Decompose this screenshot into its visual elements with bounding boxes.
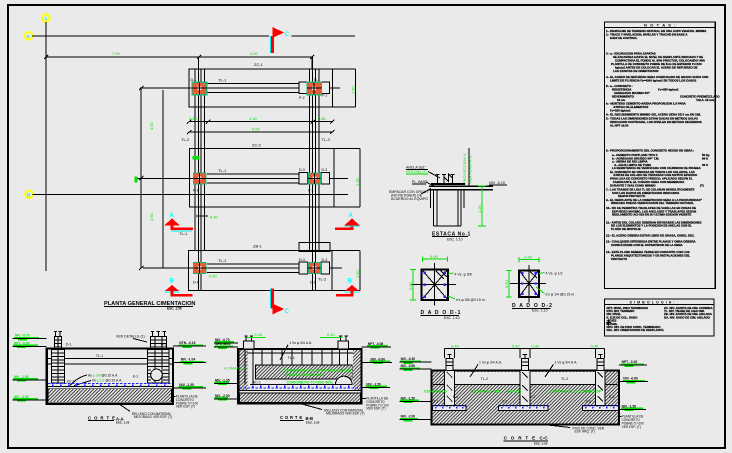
svg-text:TL-1: TL-1 (96, 354, 103, 358)
svg-text:TL-2: TL-2 (481, 377, 488, 381)
left level markers (214, 338, 238, 401)
CORTE C-C GROUP (400, 343, 649, 445)
bottom hatch band (240, 393, 361, 402)
svg-text:1.20: 1.20 (477, 204, 482, 213)
section box A-A (47, 349, 173, 404)
svg-text:VER ESP: VER ESP (584, 388, 602, 393)
svg-text:TL-3: TL-3 (322, 137, 331, 142)
grid bubble B (left lower) (25, 191, 33, 199)
svg-text:P-2: P-2 (299, 96, 305, 100)
CORTE A-A GROUP (13, 331, 207, 425)
right level markers (619, 360, 648, 411)
svg-text:ESC. 1:50: ESC. 1:50 (167, 306, 182, 310)
right pedestal above (338, 336, 349, 385)
svg-text:4.50: 4.50 (149, 212, 154, 221)
svg-text:P-1: P-1 (193, 189, 199, 193)
footing ZB-1 row3 outline (189, 251, 332, 291)
pedestal P-1 row1 (321, 82, 330, 94)
relleno leader label (545, 425, 605, 434)
svg-text:D-1: D-1 (191, 78, 197, 82)
notas box (605, 22, 716, 288)
cross symbol (606, 320, 611, 326)
svg-text:VER ESP. (T): VER ESP. (T) (366, 407, 385, 411)
svg-text:VER ESP. (T): VER ESP. (T) (622, 425, 641, 429)
plantilla label (172, 395, 199, 409)
footing ZC-2 row2 outline (189, 148, 334, 207)
svg-text:C O R T E: C O R T E (88, 415, 116, 420)
section arrow C bottom (270, 288, 289, 315)
svg-text:C O R T E: C O R T E (504, 436, 537, 441)
pedestal rects row3 right column (299, 262, 308, 274)
svg-text:DA. NIV. DADO DE CIM. AISLADO: DA. NIV. DADO DE CIM. AISLADO (664, 315, 711, 319)
slab line (238, 389, 361, 391)
svg-text:P-1: P-1 (308, 189, 314, 193)
svg-text:PROYECTO: PROYECTO (611, 257, 628, 261)
svg-text:0.40: 0.40 (512, 343, 521, 348)
svg-text:ACUERDO AL EQUIPO: ACUERDO AL EQUIPO (391, 197, 428, 201)
svg-text:0.60: 0.60 (209, 274, 218, 279)
svg-text:30 lt: 30 lt (702, 163, 708, 167)
svg-text:Z-2: Z-2 (502, 399, 507, 403)
svg-text:VER ESP. (T): VER ESP. (T) (176, 405, 195, 409)
svg-text:1 Vs φ 3/4 A.A.: 1 Vs φ 3/4 A.A. (554, 360, 577, 364)
rebar dots (52, 385, 166, 387)
base plate lines (431, 183, 465, 185)
svg-text:Z-3: Z-3 (586, 399, 591, 403)
dado column row3 left (193, 263, 206, 285)
left level markers (400, 357, 432, 421)
svg-text:REGLAMENTO ACI-318 EN SU ULTIM: REGLAMENTO ACI-318 EN SU ULTIMA EDICION … (612, 213, 691, 217)
dado D-1 section square (412, 263, 457, 306)
svg-text:ESC. 1:20: ESC. 1:20 (534, 442, 548, 446)
svg-text:e's φ 1/4 @0.15 m.: e's φ 1/4 @0.15 m. (546, 293, 576, 297)
svg-text:CICLOPEO VER: CICLOPEO VER (471, 388, 501, 393)
svg-text:e's φ 3/8 @0.15 m.: e's φ 3/8 @0.15 m. (456, 298, 486, 302)
DADO DETAILS GROUP (408, 254, 575, 320)
top dim lines (445, 348, 605, 358)
svg-text:0.80: 0.80 (189, 116, 198, 121)
svg-text:ESC. 1:10: ESC. 1:10 (444, 316, 460, 320)
left vertical dimension line (140, 88, 142, 268)
svg-text:TL-1: TL-1 (179, 231, 188, 236)
anchor bolts with hooks (436, 174, 455, 184)
svg-text:E-3: E-3 (609, 395, 614, 399)
hatched plantilla (48, 389, 172, 402)
column 2 (520, 354, 530, 406)
pedestal P-2 row1 (299, 82, 308, 94)
inner vertical dim line (162, 90, 164, 268)
svg-text:N O T A S :: N O T A S : (644, 22, 677, 27)
svg-text:S I M B O L O G I A :: S I M B O L O G I A : (630, 301, 676, 305)
svg-text:4.00: 4.00 (250, 51, 259, 56)
svg-text:P-1: P-1 (322, 94, 328, 98)
blue dashed line (48, 382, 172, 384)
column 3 (595, 354, 605, 406)
blue dashed line (240, 387, 362, 389)
green mark above left column row2 (193, 156, 200, 159)
pedestal body (431, 190, 465, 227)
svg-text:NIV. -0.15: NIV. -0.15 (489, 181, 505, 185)
svg-text:D-3: D-3 (322, 168, 328, 172)
dado column row3 right (308, 263, 320, 285)
svg-text:TL-1: TL-1 (288, 356, 295, 360)
svg-text:C O R T E: C O R T E (280, 415, 303, 420)
svg-text:PIEDRA BRAZA 60%: PIEDRA BRAZA 60% (285, 372, 324, 377)
svg-text:CONCRETO: CONCRETO (424, 388, 447, 393)
green vertical note text 1 (456, 185, 477, 187)
blue dots row (252, 386, 350, 388)
svg-text:MEJORADO VER ESP. (T): MEJORADO VER ESP. (T) (134, 415, 172, 419)
svg-text:D-3: D-3 (299, 168, 305, 172)
axis row 1 (140, 87, 340, 89)
top dimension line 7.00 / 4.00 (46, 56, 312, 58)
svg-text:CONSULTARSE CON EL SUPERVISOR: CONSULTARSE CON EL SUPERVISOR DE LA OBRA (611, 243, 684, 247)
svg-text:TL-1: TL-1 (218, 258, 227, 263)
svg-text:ESP. ARQ. (T): ESP. ARQ. (T) (575, 430, 595, 434)
title CORTE B-B (280, 415, 320, 424)
svg-text:12.- EL ACERO DEBERA ESTAR LIB: 12.- EL ACERO DEBERA ESTAR LIBRE DE GRAS… (606, 234, 695, 238)
grid bubble A (left upper) (25, 32, 33, 40)
svg-text:As φ 3/8 @0.15 A.A.: As φ 3/8 @0.15 A.A. (88, 373, 118, 377)
footing ZC-1 row1 outline (189, 69, 332, 107)
right vertical dim row1 (355, 69, 357, 107)
green dims D-2 (506, 257, 539, 297)
white upper strips between columns (445, 372, 520, 384)
leaders 1 Vs (470, 360, 502, 377)
column 1 (445, 354, 455, 406)
svg-text:0.40: 0.40 (254, 332, 263, 337)
svg-text:C: C (285, 31, 290, 38)
stirrup verticals (262, 350, 332, 365)
svg-text:ESP (T): ESP (T) (507, 388, 522, 393)
title DADO D-2 (512, 303, 553, 312)
svg-text:VER ESP. (T): VER ESP. (T) (327, 367, 352, 372)
tie beam TL-1 row2 (207, 173, 308, 175)
svg-text:INDICADA PREVIA VERIFICACION D: INDICADA PREVIA VERIFICACION DEL TERRENO… (611, 201, 694, 205)
green top dims (247, 337, 343, 339)
NOTAS GROUP (605, 22, 721, 288)
svg-text:0.40: 0.40 (525, 255, 534, 260)
right green dimension (477, 186, 486, 226)
right level markers (362, 342, 393, 389)
section arrow A left (165, 213, 194, 231)
svg-text:D-1: D-1 (310, 281, 316, 285)
svg-text:PROYECCION V.: PROYECCION V. (462, 153, 467, 184)
title PLANTA GENERAL CIMENTACION (104, 301, 195, 310)
section arrow C top (270, 27, 289, 53)
svg-text:MEJORADO VER ESP. (T): MEJORADO VER ESP. (T) (326, 412, 364, 416)
svg-text:AL NPT ±0.00: AL NPT ±0.00 (610, 123, 629, 127)
right vertical dim row2 (359, 148, 361, 207)
svg-text:VER DIM. (T): VER DIM. (T) (406, 170, 427, 174)
svg-text:D-1: D-1 (314, 78, 320, 82)
svg-text:5.60: 5.60 (252, 127, 261, 132)
dado column row2 right (308, 173, 321, 193)
axis row 2 (135, 177, 348, 179)
footing pads white (433, 406, 619, 411)
svg-text:D-4: D-4 (322, 258, 328, 262)
svg-text:E-2: E-2 (530, 395, 535, 399)
svg-text:E-1: E-1 (453, 395, 458, 399)
grid line horizontal A (32, 35, 269, 37)
svg-text:D-3: D-3 (161, 343, 167, 347)
grid bubble 1 (top) (42, 14, 50, 22)
right vertical dim row3 (359, 251, 361, 291)
svg-text:4 Vs. φ 1/2: 4 Vs. φ 1/2 (546, 272, 563, 276)
relleno leader label (120, 405, 172, 420)
grid line vertical 1 (45, 22, 47, 271)
svg-text:f'c=250 kg/cm2: f'c=250 kg/cm2 (658, 87, 679, 91)
svg-text:NCL. NIV. CIMENTACION DE DESP: NCL. NIV. CIMENTACION DE DESPLANTE (607, 328, 664, 332)
svg-text:0.80: 0.80 (318, 116, 327, 121)
svg-text:1: 1 (45, 16, 48, 21)
svg-text:VER PLANTA N.: VER PLANTA N. (468, 155, 473, 185)
svg-text:ZC-1: ZC-1 (254, 62, 264, 67)
grid line horizontal B (33, 193, 348, 195)
hatched right wall (353, 350, 361, 390)
svg-text:TL-2: TL-2 (561, 377, 568, 381)
svg-text:VER DETALLE (1): VER DETALLE (1) (116, 335, 145, 339)
dado D-1 column row1 right (307, 78, 322, 95)
leader label PL BASE (412, 180, 434, 186)
svg-text:0.40: 0.40 (591, 343, 600, 348)
title CORTE C-C (504, 436, 549, 446)
CORTE B-B GROUP (214, 332, 392, 425)
title DADO D-1 (421, 310, 462, 320)
plantilla label right (619, 415, 644, 429)
svg-text:0.60: 0.60 (408, 281, 413, 290)
svg-text:T.M.A. 19 mm: T.M.A. 19 mm (696, 98, 715, 102)
svg-text:4.40: 4.40 (249, 116, 258, 121)
leaders D-2 (539, 272, 563, 276)
extension line from notes (468, 148, 470, 186)
SIMBOLOGIA GROUP (604, 299, 714, 336)
left level markers (13, 334, 47, 402)
plantilla label right (362, 397, 389, 411)
svg-text:1 Vs φ 3/4 A.A.: 1 Vs φ 3/4 A.A. (289, 341, 312, 345)
green tick left of row2 (135, 177, 138, 183)
green dims D-1 (410, 257, 447, 300)
svg-text:TL-1: TL-1 (218, 168, 227, 173)
dado D-1 column row1 left (191, 78, 207, 95)
svg-text:2.40: 2.40 (355, 177, 360, 186)
leaders D-1 (448, 273, 472, 277)
title CORTE A-A (88, 415, 130, 424)
rect above row3 right column (299, 243, 330, 252)
svg-text:PLANO DE MONTAJE: PLANO DE MONTAJE (611, 227, 641, 231)
title ESTACA No.1 (432, 232, 471, 242)
svg-text:0.40: 0.40 (327, 332, 336, 337)
column axis verticals row1-row3 (194, 69, 196, 251)
svg-text:ESC. 1:10: ESC. 1:10 (532, 309, 548, 313)
svg-text:D-1: D-1 (193, 281, 199, 285)
relleno leader label (300, 404, 364, 416)
svg-text:1.50: 1.50 (351, 85, 356, 94)
section arrow B right (336, 279, 360, 297)
svg-text:ZC-2: ZC-2 (252, 143, 262, 148)
svg-text:TL-1: TL-1 (218, 78, 227, 83)
svg-text:PL. BASE: PL. BASE (412, 180, 428, 184)
svg-text:0.50: 0.50 (430, 254, 439, 259)
tie beam TL-1 row3 (207, 263, 308, 265)
svg-text:A: A (349, 213, 354, 219)
section arrow B left (165, 279, 193, 297)
svg-text:A: A (170, 213, 175, 219)
svg-text:LIMITE DE FLUENCIA Fy=4200 kg/: LIMITE DE FLUENCIA Fy=4200 kg/cm2 EN TOD… (610, 78, 696, 82)
notas body text (606, 29, 720, 261)
svg-text:LAS ZAPATAS DE CIMENTACION: LAS ZAPATAS DE CIMENTACION (613, 69, 658, 73)
right pedestal tower (148, 331, 170, 383)
svg-text:7.00: 7.00 (112, 51, 121, 56)
tie beam TL-1 row1 (207, 82, 308, 84)
svg-text:0.40: 0.40 (532, 343, 541, 348)
svg-text:ZB-1: ZB-1 (253, 244, 262, 249)
leader label EMPACAR (389, 189, 431, 202)
svg-text:(T): (T) (700, 183, 704, 187)
rebar dots D-2 (521, 272, 537, 295)
svg-text:1 Vs φ 3/4 A.A.: 1 Vs φ 3/4 A.A. (479, 360, 502, 364)
svg-text:B: B (348, 279, 353, 285)
section arrow A right (335, 213, 360, 230)
svg-text:0.40: 0.40 (210, 215, 219, 220)
svg-text:4.50: 4.50 (149, 121, 154, 130)
simbologia box (604, 299, 714, 336)
svg-text:E-1: E-1 (133, 375, 139, 379)
small dim 0.40 between rows (196, 215, 208, 217)
hatched left wall (240, 350, 248, 390)
green texts row (424, 388, 602, 393)
svg-text:C-C: C-C (540, 436, 549, 441)
PLAN VIEW GROUP (25, 14, 360, 315)
dado column row2 left (193, 173, 206, 193)
middle hatched block (256, 365, 353, 379)
svg-text:86 lt: 86 lt (702, 156, 708, 160)
interior line top beam (48, 358, 172, 360)
dado D-2 section square (510, 265, 546, 303)
label VER DETALLE (116, 335, 147, 343)
svg-text:ESC. 1:20: ESC. 1:20 (306, 420, 320, 424)
ESTACA DETAIL GROUP (389, 148, 507, 242)
leader label ANCLA (406, 166, 440, 179)
section box B-B (238, 349, 361, 403)
svg-text:ZC-1: ZC-1 (253, 381, 261, 385)
svg-text:6.- PROPORCIONAMIENTO DEL CONC: 6.- PROPORCIONAMIENTO DEL CONCRETO HECHO… (606, 149, 694, 153)
svg-text:1.50: 1.50 (355, 269, 360, 278)
svg-text:D-4: D-4 (299, 258, 305, 262)
leader 1 Vs (280, 341, 312, 360)
svg-text:ESC. 1:20: ESC. 1:20 (116, 421, 130, 425)
dimension line 5.60 row1 (189, 131, 332, 133)
svg-text:4 CAMAS φ: 4 CAMAS φ (224, 366, 246, 371)
mid line (250, 384, 352, 386)
svg-text:C: C (285, 308, 290, 315)
svg-text:CONCRETO f'c=100 40%: CONCRETO f'c=100 40% (286, 379, 333, 384)
axis row 3 (143, 267, 342, 269)
svg-text:0.50: 0.50 (504, 279, 509, 288)
svg-text:B: B (170, 279, 175, 285)
bottom slab line (47, 386, 173, 388)
simbologia entries (607, 306, 714, 332)
svg-text:4 Vs. φ 5/8: 4 Vs. φ 5/8 (455, 273, 472, 277)
left pedestal tower (52, 331, 65, 383)
svg-text:0.40: 0.40 (451, 343, 460, 348)
svg-text:D-1: D-1 (66, 343, 72, 347)
svg-text:Z-1: Z-1 (433, 399, 438, 403)
left pedestal above (244, 336, 255, 385)
rebar leader labels (70, 373, 122, 385)
NIV text right (489, 181, 507, 185)
section box C-C hatched body (432, 371, 620, 425)
svg-text:ESC. 1:10: ESC. 1:10 (447, 238, 463, 242)
right level markers (173, 341, 206, 390)
rebar dots D-1 (424, 271, 447, 298)
arc pipe (335, 376, 352, 384)
pedestal rects row2 right column (299, 172, 308, 184)
svg-text:EJES DE CONTROL: EJES DE CONTROL (610, 36, 638, 40)
dimension line under footing row1 (189, 121, 332, 123)
svg-text:Vs φ 1/2 @0.15 A.A.: Vs φ 1/2 @0.15 A.A. (92, 379, 122, 383)
svg-text:TL-2: TL-2 (181, 137, 190, 142)
svg-text:TL-2: TL-2 (318, 277, 327, 282)
